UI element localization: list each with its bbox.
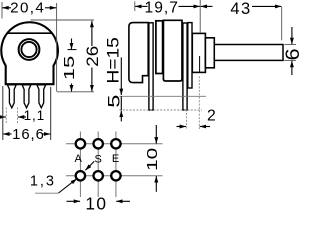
pad r2c1	[76, 171, 85, 180]
svg-text:16,6: 16,6	[12, 127, 45, 143]
dim 6 ticks	[284, 44, 296, 46]
dim 1,1 extension lines	[5, 108, 7, 124]
dim 26	[83, 21, 102, 92]
dim 15 tick	[68, 49, 77, 51]
dim 43 ext right	[281, 7, 283, 40]
pad r1c2	[94, 139, 103, 148]
pin FM	[22, 85, 31, 108]
svg-text:5: 5	[106, 95, 124, 108]
pad r2c2	[94, 171, 103, 180]
dim 10 vertical	[144, 125, 160, 192]
svg-text:20,4: 20,4	[10, 0, 45, 16]
svg-text:A: A	[75, 153, 83, 165]
dim 6	[282, 27, 304, 75]
step block	[192, 33, 205, 72]
svg-text:26: 26	[83, 46, 102, 67]
pin tip line (dotted)	[119, 109, 202, 111]
dim 20,4	[2, 0, 56, 16]
dim 10 horizontal	[67, 194, 131, 214]
dim 1,1	[0, 108, 45, 123]
svg-text:43: 43	[230, 0, 251, 18]
body outline (dome + bracket)	[1, 22, 58, 84]
svg-text:1,1: 1,1	[24, 108, 45, 123]
shaft	[214, 45, 283, 61]
pad r1c1	[76, 139, 85, 148]
leader from S	[85, 161, 94, 170]
svg-text:2: 2	[207, 108, 216, 125]
dim 19,7 ext left	[134, 2, 136, 12]
plate B	[156, 21, 163, 74]
dim 2	[177, 108, 216, 127]
leader 1,3	[35, 192, 59, 194]
svg-text:H=15: H=15	[104, 37, 122, 84]
dim 19,7 ext right	[199, 0, 201, 33]
grid column lines	[79, 132, 81, 198]
svg-text:19,7: 19,7	[145, 0, 179, 16]
pin S1 (front strip)	[149, 23, 153, 110]
dim 20,4 extension right	[56, 3, 58, 92]
bracket plate	[129, 23, 148, 83]
pad r1c3	[111, 139, 120, 148]
dim 15	[61, 39, 78, 92]
svg-text:1,3: 1,3	[30, 174, 56, 190]
pin S2 (rear strip)	[183, 23, 187, 110]
svg-text:S: S	[95, 153, 102, 165]
dim 16,6 extension lines	[2, 86, 4, 140]
svg-text:10: 10	[144, 148, 160, 171]
svg-text:15: 15	[61, 56, 78, 81]
dim 20,4 extension left	[1, 2, 3, 19]
chord flat line	[8, 32, 52, 34]
dim 19,7	[135, 0, 200, 16]
svg-text:6: 6	[282, 48, 300, 60]
bushing	[205, 38, 214, 68]
svg-text:E: E	[112, 153, 119, 165]
pad r2c3	[111, 171, 120, 180]
dim 2 ext lines	[185, 110, 187, 130]
svg-text:10: 10	[85, 194, 107, 210]
tick bottom (pcb ref)	[57, 91, 94, 93]
grid row lines	[66, 143, 163, 145]
dim 5	[106, 95, 124, 122]
pcb line	[119, 95, 206, 97]
case	[163, 20, 182, 81]
pin FL	[7, 85, 16, 108]
shaft ring inner	[21, 42, 36, 57]
tick top (26 ref)	[31, 19, 95, 21]
dim H=15	[104, 37, 122, 95]
step inner line	[199, 56, 201, 72]
rear cover	[188, 23, 192, 88]
pin FR	[37, 85, 46, 108]
dim 43	[201, 0, 282, 18]
dim 16,6	[3, 127, 50, 143]
shaft ring outer	[19, 39, 40, 60]
